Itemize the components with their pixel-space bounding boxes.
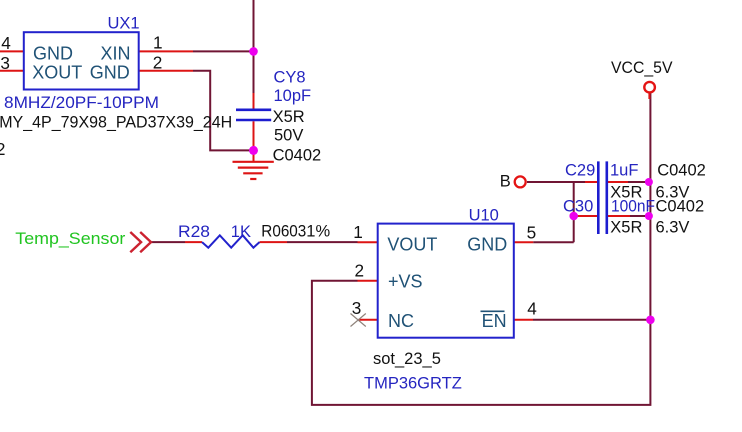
svg-text:sot_23_5: sot_23_5 xyxy=(373,350,441,368)
svg-text:VCC_5V: VCC_5V xyxy=(611,59,673,77)
svg-text:XIN: XIN xyxy=(101,44,131,64)
svg-text:4: 4 xyxy=(527,298,537,318)
svg-text:GND: GND xyxy=(467,235,507,255)
svg-text:Temp_Sensor: Temp_Sensor xyxy=(15,229,125,248)
svg-text:4: 4 xyxy=(1,33,11,53)
svg-text:B: B xyxy=(500,173,511,191)
svg-text:C0402: C0402 xyxy=(657,162,706,180)
svg-text:3: 3 xyxy=(352,298,362,318)
svg-text:C29: C29 xyxy=(565,162,595,180)
svg-text:8MHZ/20PF-10PPM: 8MHZ/20PF-10PPM xyxy=(4,94,159,112)
svg-text:UX1: UX1 xyxy=(108,15,140,33)
svg-text:2: 2 xyxy=(355,260,365,280)
svg-text:VOUT: VOUT xyxy=(387,235,437,255)
svg-text:1: 1 xyxy=(153,33,163,53)
svg-text:10pF: 10pF xyxy=(274,87,312,105)
svg-text:EN: EN xyxy=(482,311,507,331)
svg-text:5: 5 xyxy=(527,222,537,242)
svg-text:U10: U10 xyxy=(469,207,499,225)
svg-text:X5R: X5R xyxy=(273,108,305,126)
svg-text:2: 2 xyxy=(0,139,5,159)
svg-text:1: 1 xyxy=(353,222,363,242)
svg-text:GND: GND xyxy=(33,44,73,64)
svg-text:C0402: C0402 xyxy=(273,147,322,165)
svg-text:+VS: +VS xyxy=(388,272,423,292)
svg-text:XOUT: XOUT xyxy=(32,63,82,83)
svg-text:C30: C30 xyxy=(563,198,593,216)
svg-text:3: 3 xyxy=(0,53,10,73)
svg-text:TMP36GRTZ: TMP36GRTZ xyxy=(364,375,462,393)
svg-text:GND: GND xyxy=(90,63,130,83)
svg-text:2: 2 xyxy=(153,53,163,73)
svg-text:1K: 1K xyxy=(231,223,251,241)
svg-text:CY8: CY8 xyxy=(274,68,306,86)
svg-text:6.3V: 6.3V xyxy=(656,218,690,236)
svg-text:1uF: 1uF xyxy=(610,162,638,180)
svg-text:NC: NC xyxy=(388,311,414,331)
svg-text:R0603: R0603 xyxy=(261,223,306,241)
svg-text:MY_4P_79X98_PAD37X39_24H: MY_4P_79X98_PAD37X39_24H xyxy=(0,113,232,131)
svg-text:C0402: C0402 xyxy=(656,198,705,216)
svg-text:R28: R28 xyxy=(178,223,210,241)
svg-text:X5R: X5R xyxy=(610,218,642,236)
svg-text:100nF: 100nF xyxy=(611,198,655,216)
svg-text:1%: 1% xyxy=(306,223,330,241)
svg-text:50V: 50V xyxy=(274,127,303,145)
